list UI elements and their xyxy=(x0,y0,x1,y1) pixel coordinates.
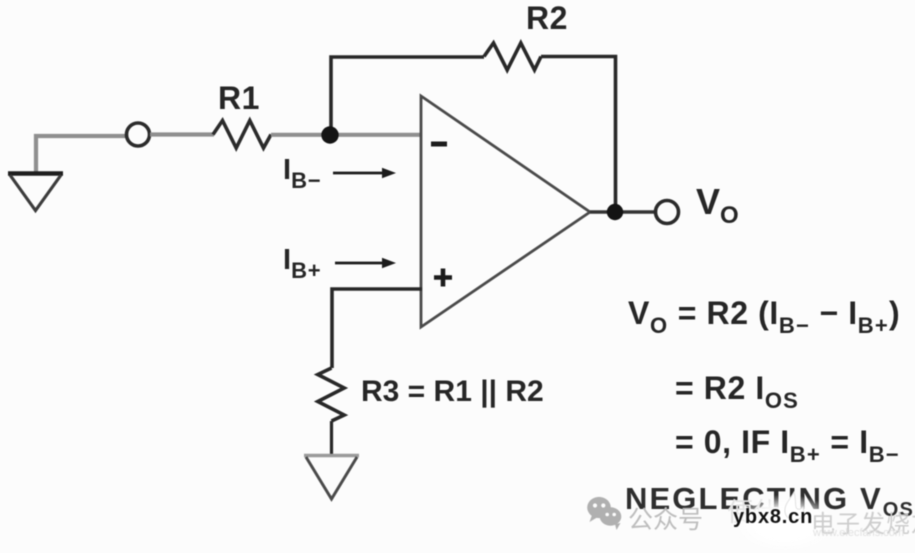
watermark ybx8.cn xyxy=(733,506,813,529)
equation line 3 xyxy=(675,424,900,461)
wire R3 to ground xyxy=(330,421,333,456)
watermark gzh text xyxy=(628,500,703,536)
arrow IB+ current xyxy=(335,258,396,268)
wire op-amp output xyxy=(590,210,655,213)
resistor R3 xyxy=(318,368,344,421)
watermark right faint chars xyxy=(811,504,915,539)
label R3 equation xyxy=(361,375,544,409)
label IB- xyxy=(283,154,321,187)
wire terminal to R1 xyxy=(150,132,214,136)
wire non-inverting input run xyxy=(332,289,422,368)
wire R1 to op-amp inverting input xyxy=(271,133,422,137)
wire feedback riser and top run xyxy=(331,57,484,136)
watermark wechat icon xyxy=(584,493,634,538)
watermark url xyxy=(813,527,904,539)
label R1 xyxy=(218,80,260,117)
op-amp U1 xyxy=(421,96,590,327)
arrow IB- current xyxy=(333,168,396,178)
ground GND2 xyxy=(304,456,359,500)
wire input horizontal from ground riser to terminal xyxy=(36,136,127,173)
node junction J1 xyxy=(321,126,338,143)
label VO output xyxy=(696,181,739,223)
node output junction xyxy=(607,204,623,220)
watermark faint mid text xyxy=(727,492,779,529)
wire R2 to output node xyxy=(541,57,616,209)
op-amp plus pin mark xyxy=(434,269,452,287)
equation line 1 xyxy=(628,295,900,332)
input terminal circle xyxy=(127,123,150,146)
output terminal circle xyxy=(656,201,679,224)
equation line 2 xyxy=(675,370,799,407)
ground GND1 xyxy=(8,174,63,211)
watermark white blob xyxy=(733,495,838,553)
op-amp minus pin mark xyxy=(431,142,447,147)
label IB+ xyxy=(283,244,321,277)
resistor R1 xyxy=(213,121,271,149)
equation line 4 NEGLECTING VOS xyxy=(625,481,914,517)
watermark flame xyxy=(780,490,810,530)
label R2 xyxy=(526,0,568,37)
resistor R2 xyxy=(484,43,541,70)
